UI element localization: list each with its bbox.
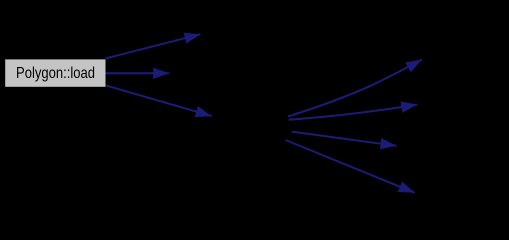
svg-text:Polygon::load: Polygon::load — [16, 65, 95, 82]
node Polygon::load — [5, 59, 105, 86]
edge B4: hidden node -> hidden node (bottom right) — [286, 140, 415, 193]
edge B2: hidden node -> hidden node (second right) — [289, 105, 418, 120]
edge A2: Polygon::load -> hidden node (bottom) — [106, 85, 212, 116]
edge B1: hidden node -> hidden node (curved, top right) — [288, 59, 422, 116]
edge B3: hidden node -> hidden node (third right) — [292, 132, 397, 146]
edge A0: Polygon::load -> hidden node (top) — [106, 34, 201, 58]
edge A1: Polygon::load -> hidden node (middle) — [106, 72, 170, 74]
